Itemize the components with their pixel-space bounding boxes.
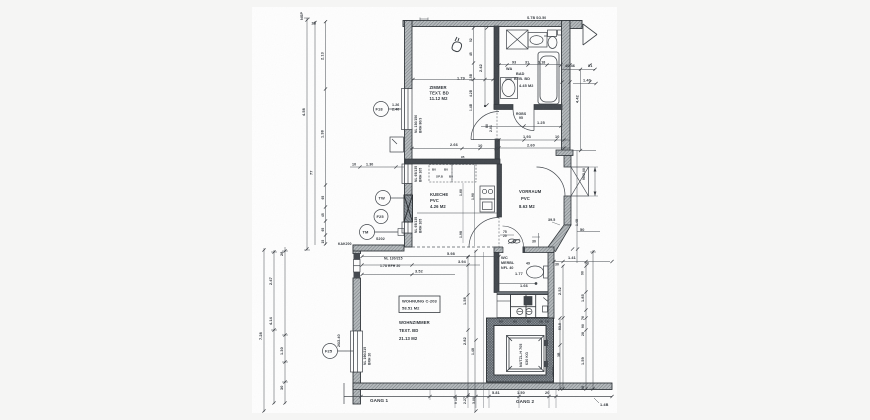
door bath->vorraum	[513, 110, 534, 131]
dim lines inside zimmer	[410, 27, 497, 149]
dims WC	[515, 240, 536, 289]
vent circles	[509, 239, 516, 243]
living top wall	[353, 245, 404, 251]
wall right upper (bath)	[562, 21, 583, 153]
wall left upper (Zimmer/Kueche)	[405, 21, 413, 248]
small window living wall	[354, 260, 361, 273]
dim line left of kueche windows	[350, 165, 404, 168]
shower	[507, 30, 529, 49]
dashed across zimmer door	[496, 109, 498, 139]
big window living (F25)	[351, 331, 363, 372]
bath left wall	[494, 26, 499, 109]
divider wall kueche/vorraum	[497, 164, 502, 217]
left chain A	[306, 18, 308, 250]
dim verticals living	[468, 250, 475, 412]
wohnung box	[399, 296, 440, 313]
new right ticks	[579, 68, 598, 391]
dashed open boundary kitchen/living	[412, 246, 497, 248]
wall top	[403, 21, 582, 27]
window F18 zimmer	[402, 89, 413, 130]
corridor line below	[344, 396, 612, 398]
bracket on left wall	[390, 137, 404, 152]
dim lines bath top	[496, 65, 596, 390]
zimmer door wall below	[495, 139, 500, 159]
bath bottom wall right part	[534, 105, 562, 110]
kitchen tiny labels + dims	[432, 155, 465, 179]
dims bottom	[489, 396, 549, 398]
bath bottom wall left part	[494, 105, 513, 110]
door zimmer->vorraum arc	[471, 112, 499, 140]
small window kueche 2	[402, 222, 412, 233]
pedestal sink	[501, 78, 518, 99]
small rect at TM leader end	[398, 229, 404, 236]
entrance door X symbol	[571, 167, 589, 196]
WC right wall	[548, 253, 554, 319]
dark posts small window living	[354, 254, 361, 260]
wall left lower (living)	[353, 245, 361, 404]
chamfer diagonal wall	[548, 225, 571, 252]
long extension line x483.5	[483, 252, 485, 408]
chevron top right	[583, 24, 597, 45]
jog at right wall	[556, 150, 573, 156]
dim vorraum	[481, 127, 595, 197]
ticks above top wall	[420, 18, 428, 21]
extension lines bottom	[430, 390, 556, 408]
sink top	[528, 33, 547, 48]
dashed across vorraum/living door	[498, 217, 500, 247]
rotated window labels along left walls	[363, 115, 423, 365]
zimmer bottom wall	[405, 159, 500, 164]
entrance dim arrowheads	[594, 167, 597, 172]
window kueche 1	[402, 164, 412, 184]
door vorraum->living arc	[469, 218, 499, 248]
bottom wall (gang)	[353, 383, 612, 390]
bathtub	[538, 52, 559, 104]
wc top right	[548, 30, 562, 49]
WC left wall	[494, 253, 499, 293]
wall right below entrance door	[564, 196, 571, 225]
flue / kamin dark box	[404, 195, 413, 222]
scan noise overlay	[0, 0, 1, 1]
left chain B	[314, 21, 316, 245]
door WC opening + arc	[500, 226, 540, 253]
entrance door arc	[537, 167, 566, 196]
hand mark in zimmer	[452, 37, 462, 52]
right side extra dim lines	[571, 151, 600, 264]
compartment tiny labels on elevator wall	[499, 320, 550, 324]
dimension slash ticks	[262, 18, 613, 412]
dims right lower chains	[554, 262, 610, 391]
bottom-left chains	[263, 248, 265, 412]
entrance dim extensions	[552, 167, 598, 225]
wall right mid above entrance door	[564, 156, 571, 168]
dim lines living top	[362, 257, 500, 275]
left chain C	[325, 21, 327, 245]
WC top wall	[494, 247, 554, 253]
